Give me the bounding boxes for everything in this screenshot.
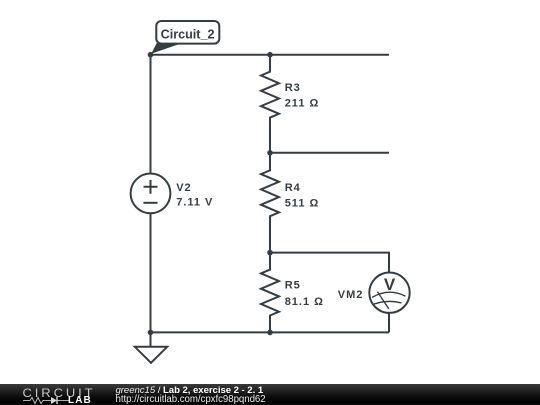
V2 plus sign [144, 180, 158, 194]
junction node R3-R4 [267, 150, 273, 156]
wire middle tap (R3-R4 node to right) [270, 152, 389, 154]
svg-text:Circuit_2: Circuit_2 [161, 28, 215, 42]
junction node top-left [148, 52, 154, 58]
CircuitLab logo wordmark CIRCUIT [23, 386, 96, 400]
svg-text:VM2: VM2 [338, 289, 364, 301]
CircuitLab logo squiggle (resistor + diode) [23, 396, 69, 405]
resistor R5 [261, 253, 279, 333]
resistor R4 [261, 153, 279, 253]
svg-text:R5: R5 [285, 280, 301, 292]
wire left rail lower [150, 213, 152, 332]
footer bar [0, 384, 540, 405]
Circuit_2 name label box [156, 21, 219, 44]
svg-text:R3: R3 [285, 82, 301, 94]
svg-text:81.1 Ω: 81.1 Ω [285, 296, 324, 308]
label tail pointer [151, 43, 183, 54]
svg-text:7.11 V: 7.11 V [176, 197, 213, 209]
svg-text:511 Ω: 511 Ω [285, 197, 320, 209]
svg-text:V: V [384, 275, 396, 294]
ground stub [150, 332, 152, 346]
voltmeter scale arc inner [373, 301, 401, 304]
junction node bottom R5 [267, 330, 273, 336]
voltmeter VM2 circle [369, 273, 409, 313]
footer credit line [116, 385, 264, 396]
voltmeter scale arc outer [372, 292, 405, 297]
wire left rail upper [150, 55, 152, 174]
wire top rail [151, 54, 390, 56]
resistor R3 [261, 55, 279, 153]
wire R4-R5 node to voltmeter top [270, 253, 389, 273]
V2 minus sign [144, 202, 158, 204]
wire voltmeter bottom [388, 313, 390, 333]
footer url line [116, 394, 266, 405]
svg-text:211 Ω: 211 Ω [285, 98, 320, 110]
junction node R4-R5 [267, 250, 273, 256]
junction node top R3 [267, 52, 273, 58]
voltmeter needle [378, 292, 389, 309]
voltage source V2 circle [131, 174, 171, 214]
CircuitLab logo wordmark LAB [68, 395, 92, 405]
wire bottom rail [151, 331, 390, 333]
svg-text:R4: R4 [285, 182, 301, 194]
ground triangle [135, 347, 167, 363]
junction node bottom-left [148, 330, 154, 336]
svg-text:V2: V2 [176, 182, 191, 194]
